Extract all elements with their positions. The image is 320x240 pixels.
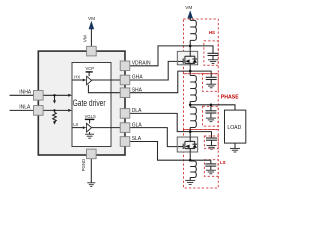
ground symbol C3 bbox=[206, 118, 216, 122]
arrowhead INHA into block bbox=[68, 94, 72, 97]
junction node C3 tap bbox=[210, 104, 213, 107]
arrowhead INHA pulldown bbox=[53, 100, 56, 103]
HS label knockout bbox=[207, 29, 217, 35]
capacitor C3 plates bbox=[205, 110, 216, 112]
svg-text:VM: VM bbox=[185, 5, 192, 10]
pin GHA bbox=[120, 75, 130, 85]
ground symbol C2 bbox=[206, 84, 216, 88]
wire LX buffer out to GLA bbox=[92, 127, 121, 129]
wire C2 tap bbox=[190, 71, 211, 77]
wire L1 to HS drain bbox=[189, 40, 191, 51]
power arrow VM right bbox=[187, 10, 193, 18]
red dashed LS cap parasitic box C5 bbox=[204, 160, 218, 177]
wire phase node to LOAD bbox=[190, 105, 235, 110]
svg-text:VDRAIN: VDRAIN bbox=[132, 60, 151, 66]
capacitor C2 plates bbox=[206, 76, 217, 78]
wire HS source bbox=[189, 65, 191, 76]
wire GLA route bbox=[130, 128, 177, 147]
svg-text:LX: LX bbox=[73, 122, 78, 127]
red dashed HS module box bbox=[183, 19, 218, 188]
ground symbol C4 bbox=[207, 146, 217, 150]
red dashed LS cap parasitic box C4 bbox=[204, 136, 218, 149]
gate driver inner block bbox=[72, 63, 111, 147]
svg-text:HX: HX bbox=[74, 75, 80, 80]
wire INLA pulldown stub top bbox=[54, 110, 56, 112]
wire C3 to ground bbox=[210, 105, 212, 111]
wire INHA input bbox=[10, 94, 70, 96]
wire PGND pin to ground bbox=[90, 159, 92, 183]
wire C1 to ground bbox=[212, 56, 214, 60]
wire C3 lower lead bbox=[210, 113, 212, 118]
junction INLA pulldown bbox=[53, 109, 55, 111]
svg-text:VGLS: VGLS bbox=[85, 114, 96, 119]
svg-text:INLA: INLA bbox=[19, 105, 31, 111]
ground symbol LS source bbox=[185, 180, 195, 184]
svg-text:GLA: GLA bbox=[132, 122, 143, 128]
arrowhead HX input bbox=[83, 79, 87, 82]
capacitor C4 plates bbox=[206, 137, 217, 139]
pin INLA bbox=[34, 106, 44, 116]
junction node SLA bbox=[189, 159, 192, 162]
capacitor C1 plates bbox=[208, 52, 219, 54]
pin GLA bbox=[120, 123, 130, 133]
inductor L1 HS drain parasitic bbox=[190, 20, 196, 40]
wire C2 to ground bbox=[210, 80, 212, 85]
junction INHA pulldown bbox=[53, 94, 55, 96]
pin DLA bbox=[120, 109, 130, 119]
svg-text:SLA: SLA bbox=[132, 136, 142, 142]
junction node PHASE bbox=[189, 104, 192, 107]
wire L4 to ground bbox=[189, 178, 191, 181]
inductor L4 LS source parasitic bbox=[190, 161, 196, 178]
wire HX buffer ref down bbox=[88, 85, 120, 93]
wire VM supply to coil L1 bbox=[189, 18, 191, 21]
ground symbol C1 bbox=[208, 60, 218, 64]
ground symbol LOAD bbox=[230, 148, 240, 152]
wire VDRAIN route bbox=[130, 46, 190, 66]
arrowhead INLA pulldown bbox=[53, 121, 56, 124]
wire INHA pulldown stub bbox=[54, 95, 56, 101]
ground symbol below LX buffer bbox=[85, 134, 94, 138]
pin VM bbox=[87, 46, 97, 56]
red dashed LS module box bbox=[183, 129, 218, 188]
gate driver IC U1 body bbox=[38, 51, 125, 155]
wire C4 tap bbox=[190, 132, 211, 138]
wire SHA route bbox=[130, 71, 190, 93]
arrowhead LX input bbox=[83, 126, 87, 129]
junction node A VDRAIN bbox=[189, 45, 192, 48]
pin SLA bbox=[120, 137, 130, 147]
pin VDRAIN bbox=[120, 61, 130, 71]
svg-text:VM: VM bbox=[88, 16, 95, 21]
pin SHA bbox=[120, 88, 130, 98]
wire GHA route bbox=[130, 61, 178, 80]
svg-text:VM: VM bbox=[82, 35, 87, 42]
svg-text:LOAD: LOAD bbox=[227, 125, 241, 131]
wire C4 to ground bbox=[211, 140, 213, 145]
pin PGND bbox=[87, 149, 97, 159]
buffer U2 HX bbox=[87, 76, 92, 85]
red dashed HS cap parasitic box bbox=[204, 41, 218, 65]
wire LX input bbox=[73, 127, 85, 129]
LOAD box bbox=[225, 110, 246, 143]
inductor L2 phase parasitic bbox=[190, 76, 196, 102]
transistor Q1 HS FET box bbox=[177, 51, 197, 65]
svg-text:VCP: VCP bbox=[85, 66, 94, 71]
wire VM pin to arrow bbox=[90, 29, 92, 46]
wire L2 to phase node bbox=[189, 102, 191, 108]
wire DLA route bbox=[130, 113, 190, 131]
svg-text:GHA: GHA bbox=[132, 75, 144, 81]
svg-text:DLA: DLA bbox=[132, 108, 142, 114]
wire C5 to ground bbox=[210, 166, 212, 170]
svg-text:SHA: SHA bbox=[132, 87, 143, 93]
ground symbol PGND bbox=[87, 183, 95, 187]
svg-text:PGND: PGND bbox=[81, 159, 86, 172]
svg-text:HS: HS bbox=[209, 30, 215, 35]
svg-text:Gate driver: Gate driver bbox=[73, 98, 106, 108]
red dashed phase cap parasitic box C2 bbox=[203, 74, 219, 92]
wire SLA route bbox=[130, 142, 190, 161]
wire HX input bbox=[73, 79, 85, 81]
transistor Q2 LS FET box bbox=[177, 137, 198, 152]
wire VGLS rail to buffer bbox=[89, 120, 91, 124]
pin INHA bbox=[34, 91, 44, 101]
red dashed phase cap parasitic box C3 bbox=[203, 106, 219, 126]
wire L3 to LS drain bbox=[189, 128, 191, 138]
red dashed PHASE module box bbox=[183, 74, 218, 130]
power arrow VM left bbox=[89, 21, 95, 29]
ground symbol C5 bbox=[206, 170, 216, 174]
junction node B SHA bbox=[189, 70, 192, 73]
capacitor C5 plates bbox=[205, 163, 216, 165]
wire LX buffer ref to ground bbox=[89, 132, 91, 134]
svg-text:PHASE: PHASE bbox=[221, 94, 239, 100]
svg-text:INHA: INHA bbox=[19, 90, 32, 96]
resistor R2 INLA pulldown zigzag bbox=[53, 112, 57, 121]
wire INLA input bbox=[10, 109, 70, 111]
wire C1 tap bbox=[190, 46, 213, 53]
arrowhead INLA into block bbox=[68, 109, 72, 112]
wire C5 tap bbox=[190, 160, 211, 163]
inductor L3 phase to LS drain bbox=[190, 107, 196, 127]
wire VCP rail to buffer bbox=[88, 72, 90, 76]
wire LOAD to ground bbox=[234, 143, 236, 148]
wire HX buffer out to GHA bbox=[92, 79, 121, 81]
junction node DLA bbox=[189, 130, 192, 133]
svg-text:LS: LS bbox=[220, 160, 226, 165]
buffer U3 LX bbox=[87, 123, 92, 132]
wire LS source bbox=[189, 152, 191, 161]
